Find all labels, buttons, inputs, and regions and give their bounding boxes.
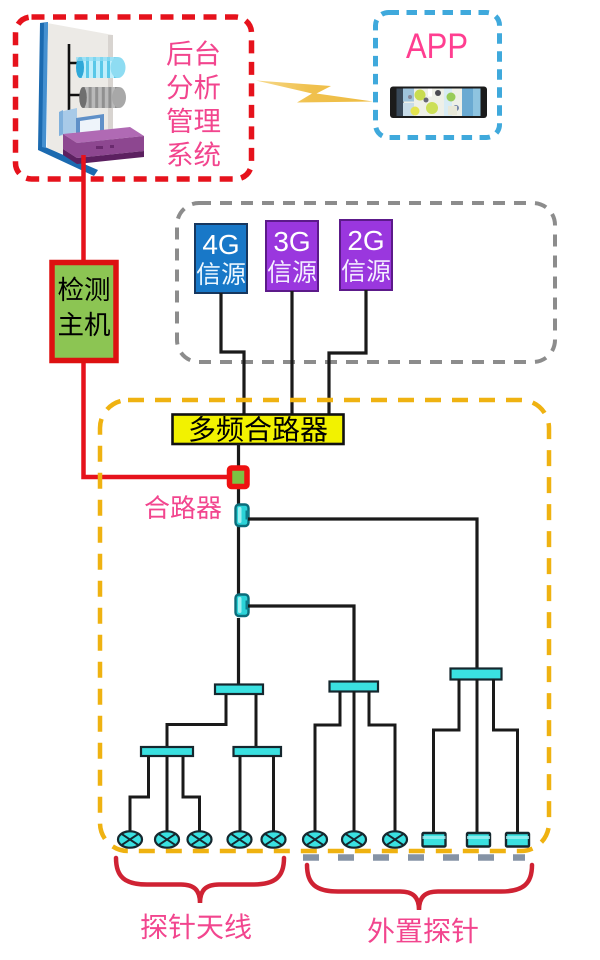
box: backend analysis system (red dashed) <box>16 17 252 179</box>
brace left (探针天线 group) <box>116 858 284 903</box>
wire barM to antenna6 <box>315 692 340 833</box>
wire 4G source to combiner <box>221 293 244 415</box>
wire barM to antenna7 <box>353 692 356 833</box>
lightning bolt <box>0 0 1 1</box>
svg-text:4G: 4G <box>202 229 239 260</box>
splitter bar L1 <box>141 747 193 756</box>
wire coupler1 to coupler2 <box>237 525 240 595</box>
splitter bar L2 <box>234 747 282 756</box>
antenna 8 (circle-X) <box>383 831 407 847</box>
wire 3G source to combiner <box>290 291 293 415</box>
combiner coupler (red square) <box>230 468 248 487</box>
label 合路器 <box>145 495 221 519</box>
box: 2G 信源 <box>340 220 392 290</box>
antenna 2 (circle-X) <box>155 831 179 847</box>
wire barR to probe1 <box>434 680 460 834</box>
box: 检测主机 <box>52 263 116 361</box>
box: distribution network (yellow dashed) <box>100 400 549 851</box>
box: 3G 信源 <box>266 221 318 291</box>
splitter bar L (top of left group) <box>215 685 263 695</box>
label 探针天线 <box>141 913 251 939</box>
wire 2G source to combiner <box>329 290 366 415</box>
wire barL to barL2 <box>255 694 258 747</box>
wire barM to antenna8 <box>369 692 395 833</box>
label 后台分析管理系统 <box>167 40 219 65</box>
wire barL1 to antenna2 <box>166 756 169 832</box>
antenna 4 (circle-X) <box>228 831 252 847</box>
wire barL1 to antenna3 <box>183 756 200 832</box>
svg-text:3G: 3G <box>273 226 310 257</box>
smartphone <box>390 87 487 119</box>
box: APP (blue dashed) <box>376 13 500 138</box>
wire coupler2 to splitter barL <box>237 618 240 685</box>
wire red coupler to coupler1 <box>237 488 240 505</box>
coupler 2 (cyan) <box>236 595 250 617</box>
wire barR to probe2 <box>476 680 479 834</box>
external probe 1 <box>423 833 446 847</box>
wire barR to probe3 <box>494 680 518 834</box>
wire barL to barL1 <box>167 694 226 747</box>
wire combiner to red coupler <box>237 444 240 466</box>
box: signal sources (gray dashed) <box>177 203 555 362</box>
svg-text:APP: APP <box>406 27 468 66</box>
antenna 3 (circle-X) <box>188 831 212 847</box>
wire coupler2 to splitter barM <box>248 606 354 682</box>
svg-text:2G: 2G <box>347 225 384 256</box>
wire coupler1 to splitter barR <box>248 519 477 669</box>
computer/server clipart <box>38 22 144 176</box>
gray dashed baseline under external probes <box>303 854 525 861</box>
coupler 1 (cyan) <box>236 505 250 527</box>
box: 4G 信源 <box>195 224 247 293</box>
external probe 2 <box>467 833 490 847</box>
wire barL2 to antenna5 <box>272 756 275 832</box>
wire barL2 to antenna4 <box>239 756 242 832</box>
brace right (外置探针 group) <box>307 865 532 910</box>
box: 多频合路器 <box>173 415 344 445</box>
red cable: host to combiner <box>84 155 228 477</box>
wire barL1 to antenna1 <box>130 756 149 832</box>
splitter bar M (middle group) <box>330 682 379 692</box>
antenna 6 (circle-X) <box>303 831 327 847</box>
antenna 1 (circle-X) <box>118 831 142 847</box>
label 外置探针 <box>368 917 478 943</box>
external probe 3 <box>506 833 529 847</box>
antenna 5 (circle-X) <box>262 831 286 847</box>
splitter bar R (right group) <box>451 669 502 680</box>
antenna 7 (circle-X) <box>342 831 366 847</box>
